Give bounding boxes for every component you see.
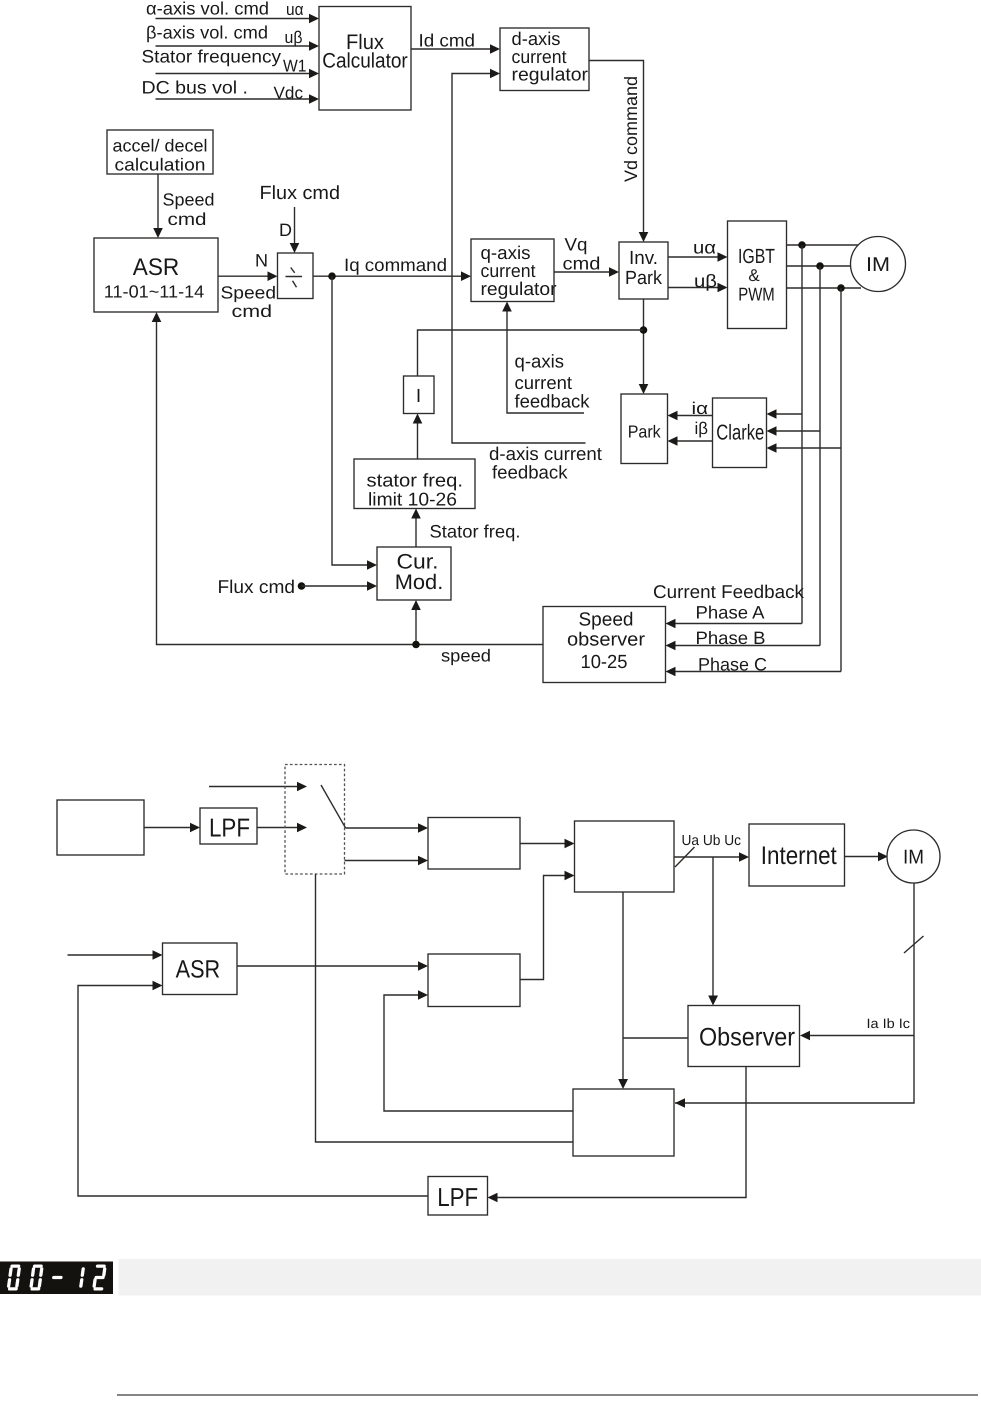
block Park (621, 394, 668, 464)
wire Iq command (divider to q-axis regulator) (313, 255, 471, 281)
block sum block (unlabeled) (573, 1089, 674, 1156)
svg-text:DC bus vol .: DC bus vol . (142, 78, 249, 98)
wire box3 L-input from sum area (384, 990, 573, 1111)
wire top input to ASR (68, 950, 163, 960)
wire DC bus vol input (142, 78, 320, 104)
svg-text:D: D (279, 220, 292, 240)
wire stator frequency input (142, 47, 320, 79)
block LPF (top) (200, 808, 257, 844)
svg-text:IGBT: IGBT (738, 245, 775, 268)
block Internet (749, 824, 845, 886)
wire Stator freq. (Cur Mod to stator freq limit) (411, 509, 520, 548)
wire phase A feedback vertical (666, 245, 803, 628)
svg-text:calculation: calculation (115, 155, 206, 175)
svg-text:LPF: LPF (209, 813, 250, 843)
svg-text:Speed: Speed (579, 610, 634, 631)
block accel/decel calculation (107, 130, 213, 175)
svg-text:Flux cmd: Flux cmd (218, 576, 296, 597)
wire u-beta (Inv Park to IGBT) (668, 271, 728, 292)
svg-text:ASR: ASR (133, 254, 180, 281)
svg-text:feedback: feedback (492, 462, 568, 483)
wire big block down to sum block (618, 892, 628, 1089)
wire ASR to divider (speed cmd N) (218, 251, 278, 322)
node junction phase C (837, 284, 845, 292)
block stator freq. limit 10-26 (354, 459, 475, 510)
svg-text:cmd: cmd (232, 301, 273, 321)
switch selector (dashed box) (285, 765, 345, 875)
svg-text:&: & (748, 266, 760, 285)
svg-text:Vq: Vq (565, 235, 588, 255)
seven segment digit 1 (81, 1269, 83, 1286)
block Cur. Mod. (377, 547, 451, 600)
wire alpha-axis vol cmd input (146, 0, 319, 23)
svg-text:uβ: uβ (285, 28, 303, 47)
wire Id cmd (411, 31, 500, 54)
svg-text:uβ: uβ (694, 271, 717, 291)
svg-text:10-25: 10-25 (581, 652, 628, 673)
svg-text:stator freq.: stator freq. (367, 470, 464, 491)
svg-text:q-axis: q-axis (515, 351, 565, 372)
seven segment digit 2 (94, 1266, 105, 1289)
svg-text:W1: W1 (283, 57, 307, 76)
svg-text:Stator freq.: Stator freq. (430, 522, 521, 542)
svg-text:feedback: feedback (515, 391, 591, 412)
svg-text:iα: iα (692, 399, 709, 418)
svg-text:Ia Ib Ic: Ia Ib Ic (867, 1016, 911, 1031)
svg-text:Ua Ub Uc: Ua Ub Uc (682, 833, 742, 849)
switch lever (321, 785, 346, 828)
svg-text:α-axis vol. cmd: α-axis vol. cmd (146, 0, 269, 19)
seven segment dash (54, 1276, 61, 1279)
svg-text:Vd command: Vd command (621, 76, 641, 182)
svg-text:ASR: ASR (176, 956, 221, 984)
wire phase B feedback vertical (666, 266, 821, 650)
motor IM (bottom) (887, 830, 940, 883)
label d-axis current feedback (489, 443, 602, 483)
block Observer (688, 1006, 800, 1067)
node junction Iq command (328, 272, 336, 280)
svg-text:uα: uα (286, 0, 304, 19)
svg-text:Speed: Speed (163, 190, 215, 210)
node flux cmd terminal dot (298, 582, 306, 590)
wire flux cmd D input to divider (279, 207, 299, 253)
svg-text:accel/ decel: accel/ decel (113, 136, 208, 156)
block q-axis current regulator (471, 239, 557, 302)
wire Vd command (d-axis regulator output to Inv Park) (589, 61, 648, 243)
wire box3 up to big block (520, 871, 575, 980)
wire speed cmd (accel/decel to ASR) (153, 174, 214, 238)
wire i-beta (Clarke to Park) (668, 419, 713, 446)
block box2 (unlabeled) (428, 818, 520, 870)
wire i-alpha (Clarke to Park) (668, 399, 713, 420)
wire q-axis current feedback into q-axis regulator bottom (502, 302, 584, 414)
block Clarke (713, 398, 767, 468)
block IGBT & PWM (728, 221, 787, 329)
svg-text:I: I (416, 386, 421, 407)
node junction speed (412, 641, 420, 649)
svg-text:cmd: cmd (168, 209, 207, 229)
wire ASR to box3 (237, 961, 428, 971)
block input box (unlabeled) (57, 800, 144, 855)
block ASR (bottom) (163, 943, 238, 995)
wire theta (Inv Park to Park) (639, 299, 649, 394)
svg-text:cmd: cmd (563, 254, 601, 274)
svg-text:iβ: iβ (695, 419, 709, 438)
wire switch lower output to box2 (345, 856, 429, 866)
svg-text:Speed: Speed (221, 283, 277, 303)
svg-text:β-axis vol. cmd: β-axis vol. cmd (146, 23, 268, 43)
wire IM down and into sum block (675, 870, 914, 1103)
wire theta branch to integrator (418, 330, 644, 376)
block box3 (unlabeled) (428, 954, 520, 1007)
svg-text:Inv.: Inv. (629, 248, 658, 269)
wire top input into switch (209, 782, 307, 792)
svg-text:Internet: Internet (761, 842, 837, 870)
block d-axis current regulator (500, 28, 589, 91)
svg-text:Phase B: Phase B (696, 628, 766, 648)
wire flux cmd to Cur. Mod. (302, 581, 378, 591)
svg-text:Vdc: Vdc (274, 84, 304, 103)
wire Vq cmd (q-axis regulator to Inv Park) (554, 235, 619, 277)
svg-text:Phase A: Phase A (696, 603, 765, 623)
wire input box to LPF (144, 823, 200, 833)
block big block (unlabeled) (575, 821, 675, 892)
wire Internet to IM (845, 852, 889, 862)
seven segment display panel (0, 1262, 113, 1295)
wire d-axis current feedback (into d-axis regulator, down to label) (452, 69, 586, 443)
wire speed feedback (observer to ASR and Cur Mod) (152, 312, 543, 666)
svg-text:IM: IM (903, 847, 924, 869)
svg-text:speed: speed (441, 646, 491, 666)
wire Observer down to LPF2 (488, 1066, 747, 1202)
svg-text:Id cmd: Id cmd (419, 31, 476, 51)
svg-text:IM: IM (866, 254, 890, 276)
toolbar gray band (119, 1259, 981, 1296)
wire dashed box down to sum block (316, 874, 574, 1142)
wire Iq branch down to Cur. Mod. (332, 276, 377, 570)
node junction phase B (816, 262, 824, 270)
wire branch down to Observer (708, 857, 718, 1006)
block LPF (bottom) (428, 1177, 488, 1216)
svg-text:regulator: regulator (481, 278, 557, 299)
svg-text:Clarke: Clarke (716, 421, 764, 445)
svg-text:Mod.: Mod. (395, 571, 444, 594)
footer rule (117, 1394, 978, 1396)
svg-text:LPF: LPF (437, 1182, 478, 1212)
svg-text:Park: Park (625, 268, 662, 289)
node junction theta (640, 326, 648, 334)
svg-text:Observer: Observer (699, 1024, 795, 1052)
wire stator freq limit to integrator (413, 414, 423, 460)
wire IGBT phase outputs to IM (787, 245, 863, 288)
wire LPF into switch (257, 823, 307, 833)
svg-text:Stator frequency: Stator frequency (142, 47, 282, 67)
svg-text:limit 10-26: limit 10-26 (368, 489, 457, 510)
wire box2 to big block (520, 839, 575, 849)
svg-text:Park: Park (628, 422, 661, 442)
svg-text:N: N (255, 251, 268, 271)
svg-text:regulator: regulator (512, 64, 589, 85)
node junction phase A (798, 241, 806, 249)
svg-text:Iq command: Iq command (344, 255, 447, 275)
block divider N/D (278, 253, 314, 299)
slash mark on IM wire (904, 936, 924, 953)
svg-text:Current Feedback: Current Feedback (653, 581, 805, 602)
wire switch common output to box2 (346, 823, 428, 833)
svg-text:Phase C: Phase C (698, 655, 767, 675)
svg-text:Flux cmd: Flux cmd (260, 183, 341, 204)
wire Ua Ub Uc (big block to Internet) (674, 833, 749, 867)
block integrator I (404, 376, 435, 414)
seven segment digit 0 (8, 1266, 19, 1289)
svg-text:PWM: PWM (738, 284, 775, 305)
svg-text:11-01~11-14: 11-01~11-14 (104, 282, 205, 302)
label q-axis current feedback (515, 351, 591, 412)
wire Ia Ib Ic (IM to Observer) (800, 1016, 914, 1040)
seven segment digit 0 (31, 1266, 42, 1289)
block ASR 11-01~11-14 (94, 238, 218, 312)
wire LPF2 feedback to ASR (78, 981, 428, 1196)
svg-text:observer: observer (567, 630, 646, 651)
wire Observer left to vertical (623, 1037, 688, 1039)
motor IM (top) (851, 237, 906, 292)
block Speed observer 10-25 (543, 607, 666, 683)
wire u-alpha (Inv Park to IGBT) (668, 238, 728, 262)
svg-text:Calculator: Calculator (322, 50, 408, 73)
wire beta-axis vol cmd input (146, 23, 319, 51)
wire phase C feedback vertical (666, 288, 842, 676)
svg-text:uα: uα (693, 238, 716, 258)
block Flux Calculator (319, 7, 411, 111)
block Inv. Park (619, 242, 668, 299)
